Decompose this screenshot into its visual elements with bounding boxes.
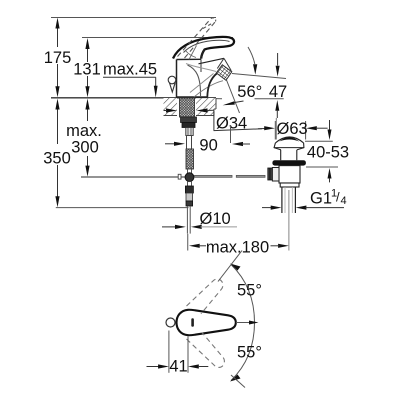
extension line top [218,251,242,282]
ball joint [185,173,194,182]
dimension max.45 with leader [103,61,158,98]
svg-text:47: 47 [269,83,287,101]
svg-text:Ø10: Ø10 [200,210,231,228]
pop-up knob on faucet left [168,76,176,92]
connector [272,168,279,182]
lever handle solid [173,37,234,59]
spout underside curve [207,73,217,97]
svg-text:/: / [336,190,340,205]
dashed handle rotated up [187,279,223,314]
tailpipe [281,187,283,213]
spout level slanted line [232,74,286,79]
dimension max.180 [188,234,289,257]
dimension O34 [164,108,263,132]
centerline [236,322,252,324]
dimension 350 [43,99,188,208]
dimension 40-53 [305,120,349,182]
washer [182,123,195,128]
dimension 131 [73,38,101,97]
dimension O10 [162,210,237,229]
svg-text:G1: G1 [310,190,332,208]
knurled adjuster [186,149,194,169]
thin rod [186,206,188,234]
wire: 350 bottom extension line [56,207,189,209]
55 degree arc [218,251,262,388]
bottom ring [280,183,299,187]
handle top view solid [177,310,236,336]
svg-text:175: 175 [44,49,72,67]
deck hatched section right with step [196,98,216,116]
svg-text:4: 4 [341,195,347,207]
locking nut [181,117,197,123]
svg-text:300: 300 [71,139,99,157]
dimension G1 1/4 [262,188,347,210]
svg-text:56°: 56° [237,83,262,101]
horizontal actuating rod [195,175,266,177]
pivot circle left [166,318,175,327]
svg-text:350: 350 [43,150,71,168]
wire: 131 extension line [82,37,233,39]
dimension 90 [165,125,250,154]
dimension 47 [269,53,287,140]
aerator (spray outlet) hatched [216,58,232,80]
wire: 175 top extension line [51,17,216,19]
svg-text:55°: 55° [237,282,262,300]
lever handle raised dashed [178,18,216,58]
dimension 41 [147,331,209,376]
slot mark [191,318,194,327]
dimension max.300 [66,99,185,178]
extension line bottom [231,375,245,388]
clamp on rod left of ball [178,174,181,179]
svg-text:Ø63: Ø63 [277,120,308,138]
arc leader + down arrow [248,47,255,64]
svg-text:55°: 55° [237,344,262,362]
wire: deck surface line [51,97,216,99]
lower nut [185,186,193,193]
neck [280,150,282,160]
faucet internal lines [186,46,224,98]
faucet shank through deck [180,98,197,136]
svg-text:40-53: 40-53 [307,144,349,162]
left black arrow [223,101,235,105]
flange [272,160,306,165]
svg-text:90: 90 [199,136,217,154]
housing [279,166,300,183]
pop-up rod below shank [178,136,194,234]
knurled nut left [268,168,273,180]
dimension 56 degrees [216,47,286,113]
svg-text:131: 131 [73,61,101,79]
svg-text:max.180: max.180 [206,239,269,257]
center extension [288,190,290,251]
dimension 175 [44,18,72,98]
faucet body outline [177,58,225,97]
deck hatched section left [164,98,178,116]
deck extension segments [216,98,222,100]
dashed handle rotated down [187,333,225,368]
wire: max300 bottom extension line [81,176,185,178]
svg-text:max.: max. [66,122,102,140]
cap skirt [274,143,304,150]
dimension O63 [258,120,328,140]
spray direction line [227,80,240,113]
dome cap [275,137,303,143]
svg-text:41: 41 [169,358,187,376]
fitting below [186,128,193,136]
svg-text:max.45: max.45 [103,61,157,79]
